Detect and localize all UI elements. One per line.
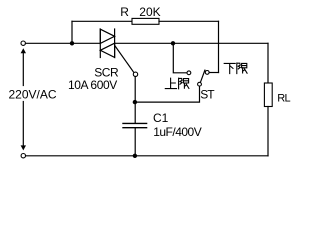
- svg-text:10A 600V: 10A 600V: [68, 78, 117, 92]
- svg-text:C1: C1: [153, 111, 169, 125]
- switch left contact: [187, 71, 191, 75]
- gate lead of SCR: [115, 46, 134, 73]
- wire branch down to left contact: [173, 43, 187, 73]
- capacitor C1 top plate: [123, 122, 147, 124]
- wire gate to capacitor: [134, 77, 136, 124]
- svg-text:20K: 20K: [139, 5, 160, 19]
- wire common drop: [135, 86, 200, 102]
- triac SCR right bar: [114, 29, 116, 58]
- svg-text:220V/AC: 220V/AC: [9, 88, 57, 102]
- resistor R: [132, 18, 159, 24]
- svg-text:RL: RL: [277, 92, 290, 104]
- switch common contact: [198, 82, 202, 86]
- capacitor C1 bottom plate: [123, 127, 147, 129]
- triac SCR bottom triangle: [100, 43, 114, 57]
- resistor RL: [264, 83, 272, 107]
- wire main left: [26, 42, 100, 44]
- node junction B: [171, 41, 175, 45]
- wire top left of R: [72, 20, 132, 22]
- wire top right of R: [159, 20, 219, 22]
- node junction D: [133, 154, 137, 158]
- arrow down (220V/AC): [22, 102, 24, 148]
- switch right contact: [205, 71, 209, 75]
- wire to right contact: [209, 72, 218, 74]
- terminal top-left: [21, 41, 25, 45]
- wire bottom: [26, 155, 268, 157]
- triac SCR left bar: [99, 29, 101, 58]
- terminal bottom-left: [21, 154, 25, 158]
- wire RL bottom lead: [267, 107, 269, 156]
- wire capacitor to bottom: [134, 128, 136, 156]
- wire main middle: [115, 42, 268, 44]
- wire riser to R: [71, 21, 73, 43]
- label 下限 (lower limit), hand-drawn glyphs: [224, 63, 247, 74]
- svg-text:1uF/400V: 1uF/400V: [153, 125, 202, 139]
- label 上限 (upper limit), hand-drawn glyphs: [165, 78, 189, 89]
- gate terminal circle: [133, 72, 137, 76]
- arrow up (220V/AC): [22, 51, 24, 86]
- triac SCR top triangle: [100, 29, 114, 43]
- wire drop to switch right contact: [218, 21, 220, 72]
- svg-text:ST: ST: [200, 87, 215, 101]
- switch lever: [200, 70, 205, 82]
- wire RL top lead: [267, 43, 269, 83]
- svg-text:R: R: [120, 5, 129, 19]
- node junction A: [70, 41, 74, 45]
- node junction C: [133, 100, 137, 104]
